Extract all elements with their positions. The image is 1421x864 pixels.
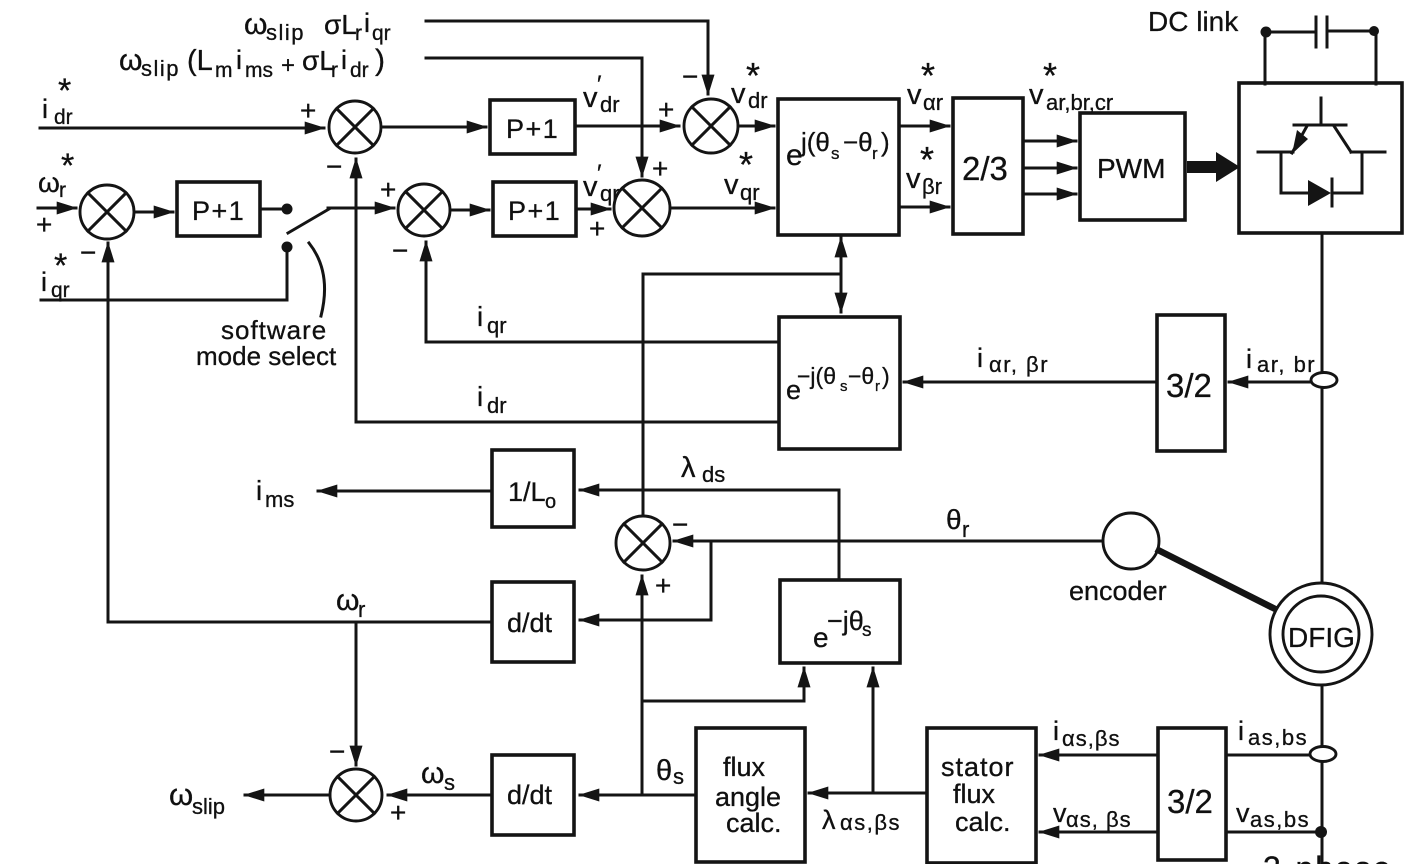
svg-text:+: +	[652, 153, 668, 184]
wire P2 output to sum S5	[576, 208, 610, 211]
svg-text:+: +	[380, 174, 396, 205]
svg-text:o: o	[545, 491, 556, 513]
wire rotor sensor to 3/2 rotor box	[1229, 381, 1311, 384]
svg-text:i: i	[477, 381, 483, 412]
wire omega-s from d/dt to S7	[388, 794, 492, 797]
diode cathode bar	[1331, 179, 1334, 206]
PWM box	[1080, 113, 1185, 220]
label idr	[477, 381, 507, 418]
svg-text:+: +	[658, 94, 674, 125]
svg-text:flux: flux	[723, 752, 766, 782]
svg-text:j(θ: j(θ	[800, 127, 830, 157]
wire compensation 2 horizontal	[426, 57, 642, 60]
svg-text:+: +	[36, 209, 52, 240]
wire ej to 2/3 (alpha)	[899, 125, 949, 128]
PI controller box P2 (q-axis)	[493, 182, 576, 236]
diode loop right vertical	[1332, 152, 1362, 193]
wire S4 output to ej rotation box	[738, 125, 774, 128]
switch annotation arc	[309, 243, 325, 316]
svg-text:−: −	[682, 61, 698, 92]
wire i alphas betas from 3/2 to stator flux calc	[1040, 754, 1158, 757]
svg-text:*: *	[54, 247, 67, 285]
svg-text:αr, βr: αr, βr	[989, 352, 1049, 377]
svg-text:+: +	[300, 95, 316, 126]
wire theta-slip horizontal branch	[643, 273, 841, 276]
svg-text:i: i	[42, 94, 48, 124]
label theta s	[656, 755, 684, 789]
label omega_slip (Lm ims + sigma Lr idr) (compensation 2)	[119, 44, 385, 82]
svg-text:+: +	[281, 52, 295, 79]
wire ims output of 1/Lo	[318, 490, 492, 493]
label i*dr	[42, 72, 73, 129]
wire DC link right drop to converter	[1375, 31, 1378, 84]
svg-text:s: s	[840, 378, 848, 395]
wire DFIG stator down to grid	[1321, 685, 1324, 864]
svg-text:v: v	[1236, 798, 1250, 828]
encoder shaft to DFIG	[1156, 549, 1291, 617]
svg-text:−θ: −θ	[843, 127, 873, 157]
IGBT left terminal wire	[1258, 151, 1293, 154]
wire i*dr reference into sum S1	[40, 127, 324, 130]
box 2/3 transform	[953, 98, 1023, 234]
svg-text:+: +	[655, 570, 671, 601]
wire lambda alphas betas up into e-jthetas bottom right	[872, 668, 875, 793]
wire DC link left drop to converter	[1264, 32, 1267, 84]
svg-text:σL: σL	[324, 9, 357, 40]
svg-text:d/dt: d/dt	[507, 780, 553, 810]
switch contact dot lower	[282, 242, 293, 253]
svg-text:θ: θ	[656, 755, 672, 787]
svg-text:r: r	[872, 144, 878, 163]
svg-text:): )	[881, 127, 890, 157]
svg-text:ω: ω	[119, 44, 142, 77]
svg-text:ar, br: ar, br	[1257, 352, 1316, 377]
label theta r	[946, 504, 969, 542]
PI controller box P3 (speed)	[177, 182, 260, 236]
wire converter to rotor of DFIG	[1321, 233, 1324, 583]
svg-text:ω: ω	[421, 757, 444, 790]
wire DC link left to capacitor	[1266, 31, 1314, 34]
svg-text:−jθ: −jθ	[827, 606, 864, 636]
svg-text:r: r	[355, 22, 362, 45]
svg-text:ms: ms	[245, 59, 273, 82]
wire S1 output to PI box P1	[381, 126, 486, 129]
wire 2/3 to PWM line b	[1023, 167, 1076, 170]
svg-text:s: s	[862, 620, 872, 641]
svg-text:r: r	[331, 59, 338, 82]
IGBT right slant	[1334, 126, 1351, 152]
svg-text:−: −	[392, 235, 408, 266]
svg-text:v: v	[724, 169, 739, 201]
rotation box e-jthetas	[780, 580, 900, 663]
summing junction S3 (speed)	[80, 185, 134, 239]
svg-text:P+1: P+1	[192, 196, 245, 226]
label software mode select	[196, 315, 337, 371]
label v as,bs	[1236, 798, 1310, 832]
svg-text:dr: dr	[350, 59, 369, 82]
svg-text:qr: qr	[740, 180, 760, 205]
diode triangle	[1308, 180, 1331, 206]
summing junction S7 (omega slip)	[330, 769, 382, 821]
svg-text:αs, βs: αs, βs	[1066, 807, 1132, 832]
svg-text:calc.: calc.	[726, 808, 782, 838]
svg-text:encoder: encoder	[1069, 576, 1167, 606]
wire theta-slip up into ej bottom	[840, 238, 843, 274]
svg-text:slip: slip	[141, 56, 180, 81]
diode loop left vertical	[1281, 153, 1307, 193]
label omega_slip sigma Lr iqr (compensation 1)	[244, 8, 391, 45]
label i*qr	[41, 247, 70, 302]
svg-text:i: i	[1238, 716, 1244, 746]
svg-text:−: −	[80, 237, 96, 268]
svg-text:DC link: DC link	[1148, 6, 1239, 37]
wire compensation 2 vertical into sum v'qr	[641, 58, 644, 176]
wire P3 output to switch contact	[260, 208, 284, 211]
wire omega*r reference into sum S3	[38, 207, 76, 210]
label v'dr	[583, 71, 620, 117]
svg-text:3/2: 3/2	[1167, 783, 1213, 820]
svg-text:3-phase: 3-phase	[1263, 850, 1393, 864]
svg-text:v: v	[1053, 798, 1067, 828]
svg-text:mode select: mode select	[196, 341, 337, 371]
label iqr	[477, 301, 507, 338]
svg-text:dr: dr	[600, 92, 620, 117]
IGBT top bar	[1294, 124, 1346, 127]
svg-text:λ: λ	[822, 805, 836, 835]
svg-text:r: r	[962, 517, 969, 542]
wire lambda-ds vertical from e-jthetas top	[838, 490, 841, 580]
svg-text:−θ: −θ	[848, 363, 874, 389]
svg-text:1/L: 1/L	[508, 477, 546, 507]
wire switch output to sum S2	[328, 207, 394, 210]
converter box	[1239, 83, 1402, 233]
PI controller box P1 (d-axis)	[490, 100, 575, 154]
svg-text:): )	[375, 44, 385, 77]
svg-text:v: v	[907, 79, 922, 111]
svg-text:*: *	[739, 144, 753, 185]
svg-text:slip: slip	[192, 794, 225, 819]
IGBT arrowhead on left slant	[1292, 130, 1308, 154]
svg-text:v: v	[583, 82, 598, 114]
svg-text:r: r	[59, 179, 66, 202]
label omega s	[421, 757, 455, 795]
svg-text:PWM: PWM	[1097, 153, 1165, 184]
rotation box e-j(thetas-thetar)	[779, 317, 900, 449]
label v alphas,betas	[1053, 798, 1132, 832]
svg-text:i: i	[236, 45, 242, 75]
svg-text:v: v	[1029, 79, 1044, 111]
label i as,bs	[1238, 716, 1308, 750]
DFIG machine circles	[1270, 583, 1372, 685]
svg-text:i: i	[256, 475, 262, 506]
wire omega-r up into S3 bottom	[107, 243, 110, 622]
wire omega-r branch down into S7	[355, 622, 358, 765]
label omega r	[336, 584, 365, 622]
wire P1 output to sum S4	[575, 125, 679, 128]
summing junction S1 (d-axis current)	[329, 101, 381, 153]
wire i*qr up to switch lower contact	[41, 252, 287, 300]
wire 3/2 rotor to e-j box	[904, 381, 1157, 384]
svg-text:i: i	[1053, 716, 1059, 746]
label v*ar,br,cr	[1029, 55, 1113, 115]
IGBT collector lead	[1320, 98, 1323, 125]
svg-text:dr: dr	[487, 393, 507, 418]
box d/dt lower	[492, 755, 574, 835]
svg-text:DFIG: DFIG	[1288, 622, 1355, 653]
svg-text:ω: ω	[244, 8, 267, 41]
svg-text:v: v	[731, 78, 746, 110]
svg-text:+: +	[390, 797, 406, 828]
label v'qr	[583, 160, 620, 206]
label omega slip	[169, 777, 225, 819]
wire lambda-ds into 1/Lo	[580, 489, 839, 492]
wire v alphas betas from 3/2 to stator flux calc	[1040, 831, 1158, 834]
svg-text:2/3: 2/3	[962, 150, 1008, 187]
wire idr feedback	[356, 159, 779, 422]
wire theta-r from encoder to S6	[674, 540, 1103, 543]
box stator flux calc	[927, 728, 1036, 863]
summing junction S6 (theta slip)	[616, 516, 670, 570]
label ims	[256, 475, 294, 512]
svg-text:r: r	[358, 597, 365, 622]
wire theta-slip down into e-j top	[840, 274, 843, 312]
wire omega-slip output	[245, 794, 330, 797]
summing junction S2 (q-axis current)	[398, 184, 450, 236]
svg-text:dr: dr	[748, 88, 768, 113]
wire S2 output to PI box P2	[450, 209, 489, 212]
DC link node dot right	[1369, 26, 1379, 36]
box d/dt upper	[492, 582, 574, 662]
label v*qr	[724, 144, 760, 205]
wire 2/3 to PWM line a	[1023, 140, 1076, 143]
label i ar,br	[1246, 344, 1316, 377]
summing junction S5 (v*qr)	[614, 180, 670, 236]
box 3/2 stator	[1158, 728, 1226, 860]
svg-text:ω: ω	[169, 777, 193, 812]
box 3/2 rotor	[1157, 315, 1225, 451]
IGBT right terminal wire	[1351, 151, 1385, 154]
capacitor plates	[1316, 17, 1327, 47]
svg-text:−: −	[672, 509, 688, 540]
svg-text:ω: ω	[336, 584, 359, 617]
encoder circle	[1103, 513, 1159, 569]
wire thetas vertical up into S6	[641, 576, 644, 795]
svg-text:r: r	[875, 378, 880, 395]
svg-text:i: i	[477, 301, 483, 332]
svg-text:(L: (L	[187, 45, 213, 77]
wire thetas branch into e-jthetas bottom left	[642, 668, 804, 701]
svg-text:*: *	[58, 72, 71, 110]
box flux angle calc	[696, 728, 805, 862]
wire S5 output to ej rotation box	[670, 207, 774, 210]
label i alphas,betas	[1053, 716, 1121, 751]
svg-text:P+1: P+1	[506, 114, 559, 144]
svg-text:flux: flux	[953, 779, 996, 809]
thick arrow PWM to converter	[1187, 152, 1240, 182]
svg-text:qr: qr	[372, 22, 391, 45]
svg-text:as,bs: as,bs	[1248, 725, 1308, 750]
summing junction S4 (v*dr)	[684, 99, 738, 153]
svg-text:d/dt: d/dt	[507, 608, 553, 638]
wire compensation 1 vertical into sum v*dr	[707, 21, 710, 94]
svg-text:ds: ds	[702, 462, 725, 487]
wire theta-slip from S6 up	[642, 274, 645, 516]
wire v as,bs from junction to 3/2	[1226, 831, 1321, 834]
svg-text:i: i	[977, 343, 983, 373]
svg-text:i: i	[341, 45, 347, 75]
rotation box ej(thetas-thetar)	[778, 99, 899, 235]
wire theta-r branch down to d/dt	[580, 541, 711, 620]
svg-text:i: i	[364, 8, 370, 38]
wire i as,bs from stator sensor to 3/2	[1226, 754, 1311, 757]
svg-text:αs,βs: αs,βs	[840, 810, 901, 835]
switch arm	[288, 209, 329, 233]
svg-text:): )	[882, 363, 890, 389]
svg-text:3/2: 3/2	[1166, 367, 1212, 404]
label omega*r	[38, 147, 74, 202]
svg-text:m: m	[215, 59, 233, 82]
wire ej to 2/3 (beta)	[899, 206, 949, 209]
svg-text:calc.: calc.	[955, 807, 1011, 837]
svg-text:σL: σL	[302, 45, 335, 76]
DC link node dot left	[1261, 27, 1272, 38]
junction dot v as,bs	[1315, 826, 1327, 838]
label v*dr	[731, 55, 768, 113]
label v*br (beta)	[906, 139, 942, 199]
svg-text:v: v	[583, 171, 598, 203]
svg-text:ω: ω	[38, 167, 60, 198]
wire omega-r from d/dt to left	[108, 621, 492, 624]
wire 2/3 to PWM line c	[1023, 193, 1076, 196]
label i alphar betar	[977, 343, 1049, 377]
wire iqr feedback	[426, 242, 779, 342]
svg-text:i: i	[41, 267, 47, 297]
svg-text:P+1: P+1	[508, 196, 561, 226]
wire capacitor to DC link right	[1329, 30, 1374, 33]
switch contact dot upper	[282, 204, 293, 215]
svg-text:−: −	[329, 736, 345, 767]
svg-text:slip: slip	[266, 20, 305, 45]
svg-text:αr: αr	[923, 90, 943, 115]
svg-text:as,bs: as,bs	[1250, 807, 1310, 832]
svg-text:ms: ms	[265, 487, 294, 512]
svg-text:θ: θ	[946, 504, 962, 535]
box 1/Lo	[492, 450, 574, 527]
svg-text:−j(θ: −j(θ	[797, 363, 836, 389]
label lambda alphas,betas	[822, 805, 901, 835]
wire compensation 1 horizontal	[426, 20, 708, 23]
wire S3 output to PI box P3	[134, 211, 173, 214]
svg-text:+: +	[589, 213, 605, 244]
label lambda ds	[681, 452, 725, 487]
svg-text:βr: βr	[922, 174, 942, 199]
svg-text:s: s	[444, 770, 455, 795]
svg-text:s: s	[831, 144, 840, 163]
svg-text:qr: qr	[487, 313, 507, 338]
label v*ar (alpha)	[907, 55, 943, 115]
svg-text:i: i	[1246, 344, 1252, 374]
rotor current sensor	[1311, 373, 1337, 388]
svg-text:αs,βs: αs,βs	[1062, 726, 1121, 751]
svg-text:−: −	[326, 151, 342, 182]
svg-text:s: s	[673, 764, 684, 789]
wire lambda alphas betas from stator flux calc	[809, 792, 927, 795]
IGBT left slant	[1292, 126, 1307, 153]
svg-text:v: v	[906, 163, 921, 195]
svg-text:stator: stator	[941, 752, 1015, 782]
svg-text:λ: λ	[681, 452, 696, 484]
stator current sensor	[1310, 747, 1336, 762]
wire thetas from flux angle calc	[580, 794, 696, 797]
